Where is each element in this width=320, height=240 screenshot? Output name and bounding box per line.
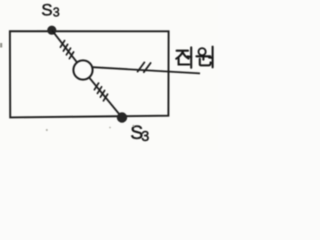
scan speckles [46, 129, 48, 131]
break symbol // on power wire [138, 62, 151, 72]
lamp L (circle) [73, 60, 92, 79]
resistance-wire hatch marks lower [94, 83, 107, 101]
resistance-wire hatch marks upper [60, 41, 73, 59]
node S3 top (junction dot) [47, 26, 56, 35]
label 전원 (power source) : hand-drawn strokes [176, 47, 212, 68]
wire diagonal lower segment [89, 77, 122, 117]
svg-text:3: 3 [53, 6, 60, 20]
svg-text:S: S [41, 0, 52, 19]
glyph 전 [177, 50, 188, 52]
glyph 원 [199, 48, 206, 55]
wire to power source [93, 67, 200, 73]
wire diagonal upper segment [52, 30, 77, 62]
svg-text:3: 3 [141, 129, 149, 145]
wire rectangle loop [10, 31, 169, 117]
node S3 bottom (junction dot) [117, 112, 127, 122]
